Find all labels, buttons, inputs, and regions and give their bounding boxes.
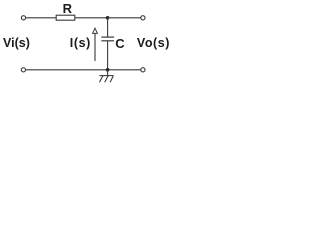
terminal: Vo top-right [141, 16, 145, 20]
wire: bottom rail [26, 69, 141, 71]
svg-text:Vo(s): Vo(s) [137, 36, 170, 50]
node A (top junction dot) [106, 16, 110, 20]
wire: top-left terminal to resistor [26, 17, 56, 19]
terminal: Vo bottom-right [141, 68, 145, 72]
wire: node A down to capacitor top plate [107, 18, 109, 37]
wire: node B down to ground [107, 70, 109, 76]
svg-text:Vi(s): Vi(s) [3, 36, 30, 50]
ground [99, 76, 113, 83]
wire: resistor to node A [75, 17, 108, 19]
svg-text:R: R [63, 1, 73, 16]
node B (bottom junction dot) [106, 68, 110, 72]
resistor R [56, 15, 75, 20]
wire: node A to top-right terminal [108, 17, 141, 19]
terminal: Vi bottom-left [21, 68, 25, 72]
terminal: Vi top-left [21, 16, 25, 20]
capacitor C [101, 37, 114, 41]
current arrow I(s) (points up) [93, 28, 98, 61]
svg-text:I(s): I(s) [70, 36, 91, 50]
svg-text:C: C [115, 36, 125, 51]
wire: capacitor bottom plate to node B [107, 41, 109, 70]
